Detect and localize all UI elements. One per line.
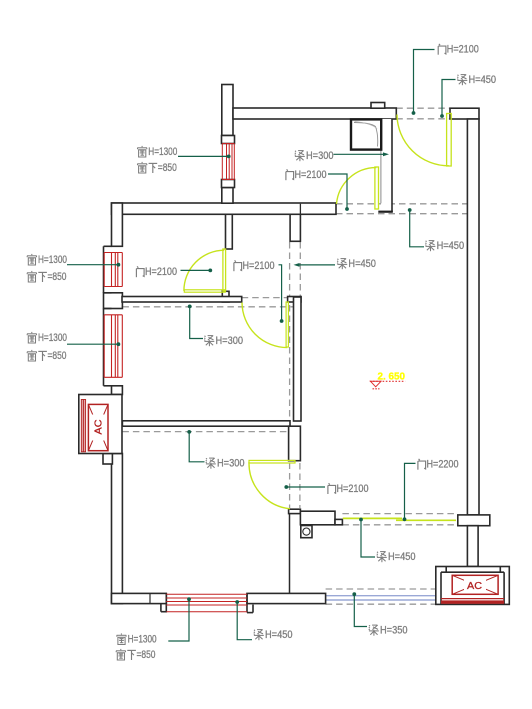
leader beam450 bottom xyxy=(235,600,252,640)
wall bedroom2 east xyxy=(294,297,302,421)
leader door bathroom xyxy=(328,174,349,211)
leader beam300 bathroom xyxy=(334,152,390,156)
label beam H=450 sliding xyxy=(377,551,416,563)
floor drain square xyxy=(301,526,312,538)
svg-text:H=300: H=300 xyxy=(306,150,334,162)
svg-text:H=450: H=450 xyxy=(348,258,376,270)
label window sill 850 w4 xyxy=(116,649,156,661)
pilaster on north wall xyxy=(371,103,385,109)
balcony railing blue line 2 xyxy=(326,599,446,601)
wall stub top-left exterior lower xyxy=(222,188,233,204)
svg-text:H=2100: H=2100 xyxy=(447,44,479,56)
svg-text:H=1300: H=1300 xyxy=(38,332,67,344)
svg-text:H=2100: H=2100 xyxy=(145,266,177,278)
wall bottom room east below door xyxy=(289,509,301,513)
beam dashed vertical opening east xyxy=(299,242,301,297)
leader window1 xyxy=(67,263,120,267)
leader beam450 entry xyxy=(408,208,424,247)
label door H=2100 top xyxy=(438,44,479,56)
svg-text:H=1300: H=1300 xyxy=(128,634,157,646)
door D2 entry leaf+arc xyxy=(397,114,451,167)
label beam H=450 top xyxy=(457,74,496,86)
AC unit left niche xyxy=(79,395,122,454)
leader beam300 bedroom2 xyxy=(188,305,203,339)
shaft square with diagonal xyxy=(351,119,381,149)
wall stub top-left exterior upper xyxy=(222,85,233,136)
wall bottom room east upper xyxy=(289,426,301,461)
wall bathroom north xyxy=(233,108,396,119)
svg-text:H=450: H=450 xyxy=(265,629,293,641)
door D6 balcony sliding panels xyxy=(343,518,456,520)
wall corner top-right xyxy=(450,108,479,119)
leader beam450 west xyxy=(294,263,336,267)
wall living south solid xyxy=(300,511,335,525)
svg-text:2. 650: 2. 650 xyxy=(378,371,406,382)
label window sill 850 bathroom xyxy=(137,162,177,174)
svg-text:H=2100: H=2100 xyxy=(337,483,369,495)
label window H=1300 w2 xyxy=(27,332,67,344)
balcony dashed lower xyxy=(326,603,446,605)
door D1 bathroom leaf+arc xyxy=(337,167,379,209)
label beam H=450 entry xyxy=(425,240,464,252)
door D3 bedroom1 leaf+arc xyxy=(184,249,226,292)
svg-text:H=1300: H=1300 xyxy=(148,146,177,158)
label door H=2100 bathroom xyxy=(286,169,327,181)
wall stub cased opening xyxy=(290,214,300,241)
wall left exterior seg lower xyxy=(112,454,123,604)
wall left exterior seg below window2 xyxy=(112,386,123,395)
balcony railing blue line 1 xyxy=(326,595,446,597)
wall right exterior lower xyxy=(467,526,478,567)
label window H=1300 bathroom xyxy=(137,146,177,158)
leader door top xyxy=(412,50,435,115)
leader beam300 bottom room xyxy=(187,430,204,462)
label beam H=450 bottom xyxy=(254,629,293,641)
label beam H=300 bedroom2 xyxy=(204,335,243,347)
svg-text:H=1300: H=1300 xyxy=(38,254,67,266)
beam 300 dashed bottom room xyxy=(122,431,288,433)
svg-text:=850: =850 xyxy=(158,162,177,174)
wall bedroom1 east lower jamb xyxy=(222,291,229,302)
svg-text:H=450: H=450 xyxy=(388,551,416,563)
svg-text:AC: AC xyxy=(467,580,482,592)
svg-text:H=2200: H=2200 xyxy=(427,459,459,471)
beam dashed line over entry door L xyxy=(396,118,450,120)
wall bottom exterior east xyxy=(247,593,326,603)
svg-text:H=450: H=450 xyxy=(437,240,465,252)
wall pier between windows xyxy=(104,293,123,309)
wall bottom exterior west xyxy=(112,593,167,603)
window W3 bathroom stub xyxy=(222,136,235,188)
beam 300 dashed bedroom1 xyxy=(122,306,300,308)
label beam H=350 balcony xyxy=(369,625,408,637)
wall partition bedroom1 south xyxy=(122,297,242,303)
label door H=2100 bedroom1 xyxy=(136,266,177,278)
wall line bottom room east lower xyxy=(289,514,291,594)
joint line at stub2 xyxy=(299,204,301,215)
svg-text:H=2100: H=2100 xyxy=(295,169,327,181)
door jamb dashed bottom room xyxy=(299,463,301,508)
leader beam450 sliding xyxy=(359,518,375,557)
wall bedroom1 east upper xyxy=(226,214,233,249)
leader beam350 balcony xyxy=(352,592,367,626)
beam 450 dashed vertical west of living xyxy=(289,242,291,509)
sliding door dashed upper xyxy=(342,513,457,515)
svg-text:H=350: H=350 xyxy=(380,625,408,637)
door D5 bottom room leaf+arc xyxy=(249,460,295,508)
svg-text:=850: =850 xyxy=(48,271,67,283)
level mark 2.650 xyxy=(370,371,406,389)
leader window3 xyxy=(178,155,231,159)
beam 450 dashed lower entry xyxy=(336,213,467,215)
svg-text:AC: AC xyxy=(93,419,105,434)
window W4 bottom wall xyxy=(161,593,253,612)
leader opening door xyxy=(279,265,284,323)
label door H=2100 opening xyxy=(234,260,275,272)
svg-text:H=450: H=450 xyxy=(469,74,497,86)
label window sill 850 w2 xyxy=(27,350,67,362)
balcony dashed upper xyxy=(326,588,446,590)
leader door bedroom1 xyxy=(181,269,213,273)
AC unit right box xyxy=(436,567,510,605)
svg-text:H=2100: H=2100 xyxy=(243,260,275,272)
wall left exterior seg above window1 xyxy=(112,203,123,246)
wall bathroom east xyxy=(378,119,393,212)
beam 450 dashed upper entry xyxy=(336,203,467,205)
leader door balcony xyxy=(403,463,416,521)
wall horizontal band bedroom1-bathroom south xyxy=(112,203,337,214)
svg-text:H=300: H=300 xyxy=(216,335,244,347)
leader window4 xyxy=(168,597,191,641)
wall block east of bedroom2 door xyxy=(288,297,301,303)
wall pier right of sliding door xyxy=(458,515,490,526)
wall living south step xyxy=(335,519,342,524)
label door H=2100 bottom room xyxy=(328,483,369,495)
label window sill 850 w1 xyxy=(27,271,67,283)
label window H=1300 w4 xyxy=(117,633,157,645)
leader window2 xyxy=(67,342,120,346)
wall step below AC niche xyxy=(103,454,112,465)
label beam H=300 bottom room xyxy=(206,458,245,470)
wall partition bedroom2 south xyxy=(122,421,290,426)
window W1 left wall upper xyxy=(104,246,123,292)
beam dashed line over entry door H xyxy=(396,107,450,109)
label beam H=300 bathroom xyxy=(295,150,334,162)
leader door bottom room xyxy=(284,485,325,489)
window4 frame divider line xyxy=(149,593,151,603)
window W2 left wall lower xyxy=(104,309,123,386)
label beam H=450 west xyxy=(337,258,376,270)
leader beam450 top xyxy=(440,80,455,118)
svg-text:=850: =850 xyxy=(48,350,67,362)
svg-text:=850: =850 xyxy=(137,649,156,661)
wall right exterior xyxy=(467,119,479,515)
beam dashed over bedroom2 door xyxy=(242,297,288,299)
label window H=1300 w1 xyxy=(27,254,67,266)
svg-text:H=300: H=300 xyxy=(217,458,245,470)
label door H=2200 balcony xyxy=(418,459,459,471)
sliding door dashed lower xyxy=(342,524,457,526)
door D4 bedroom2 leaf+arc xyxy=(242,302,288,348)
